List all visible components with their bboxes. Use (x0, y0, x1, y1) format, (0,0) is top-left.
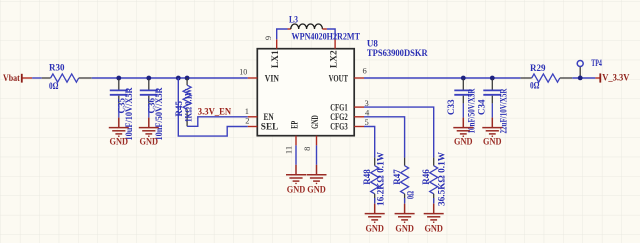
capacitor C36 (140, 79, 164, 141)
svg-text:3: 3 (365, 98, 369, 108)
pin 4 CFG2 (354, 116, 364, 118)
inductor L3 WPN4020H2R2MT (288, 14, 361, 42)
svg-text:C33: C33 (446, 99, 456, 115)
svg-text:VIN: VIN (265, 73, 280, 83)
wire Vbat to R30 (32, 77, 42, 79)
resistor R47 0R (392, 158, 415, 204)
pin 2 SEL (248, 126, 257, 128)
svg-text:CFG2: CFG2 (330, 112, 348, 122)
capacitor C34 (477, 79, 509, 134)
svg-text:CFG1: CFG1 (330, 102, 348, 112)
ground under C33 (453, 118, 473, 147)
svg-text:TPS63900DSKR: TPS63900DSKR (367, 48, 428, 58)
ground under R46 (424, 204, 444, 234)
port Vbat (3, 74, 32, 84)
svg-text:22uF/10V/X5R: 22uF/10V/X5R (499, 88, 509, 133)
svg-text:10nF/50V/X5R: 10nF/50V/X5R (467, 88, 477, 133)
ground under R47 (395, 204, 415, 234)
pin 5 CFG3 (354, 126, 364, 128)
svg-text:3.3V_EN: 3.3V_EN (198, 107, 232, 117)
svg-text:0Ω: 0Ω (405, 191, 415, 199)
svg-text:LX1: LX1 (270, 50, 280, 68)
wire VOUT rail (364, 77, 521, 79)
wire R29 to port (572, 77, 595, 79)
pin 6 VOUT (354, 77, 364, 79)
svg-text:EP: EP (290, 121, 300, 129)
svg-text:R47: R47 (392, 169, 402, 185)
port V_3.3V (595, 73, 629, 83)
svg-text:LX2: LX2 (329, 50, 339, 68)
wire CFG3 to R48 (364, 127, 375, 158)
svg-text:GND: GND (365, 224, 384, 234)
wire GND pin to ground (316, 145, 318, 164)
svg-text:V_3.3V: V_3.3V (602, 73, 629, 83)
resistor R48 16.2K (362, 152, 386, 206)
node junction C36 (146, 76, 151, 81)
svg-text:Vbat: Vbat (3, 74, 20, 84)
svg-text:0Ω: 0Ω (49, 81, 59, 91)
svg-text:10: 10 (239, 67, 247, 77)
svg-text:R48: R48 (362, 169, 372, 185)
svg-text:C34: C34 (477, 99, 487, 115)
pin 8 GND (316, 136, 318, 146)
svg-text:R30: R30 (49, 63, 65, 73)
svg-text:EN: EN (264, 112, 275, 122)
svg-text:GND: GND (454, 136, 473, 146)
pin 11 EP (295, 136, 297, 146)
ground under C36 (139, 118, 159, 147)
svg-text:GND: GND (307, 185, 326, 195)
ground under R48 (365, 204, 385, 234)
svg-text:WPN4020H2R2MT: WPN4020H2R2MT (292, 32, 361, 42)
resistor R30 0R (42, 63, 92, 91)
wire R45 to EN pin1 (187, 117, 248, 127)
svg-text:U8: U8 (367, 38, 378, 48)
resistor R29 0R (521, 63, 573, 91)
svg-text:1: 1 (245, 106, 249, 116)
test point TP4 (577, 58, 602, 78)
node junction C35 (116, 76, 121, 81)
IC U8 TPS63900DSKR (239, 36, 428, 154)
svg-text:R46: R46 (421, 169, 431, 185)
svg-text:GND: GND (110, 136, 129, 146)
ground under GND pin (307, 165, 327, 195)
node junction R45 (185, 76, 190, 81)
pin 3 CFG1 (354, 106, 364, 108)
node junction C33 (461, 76, 466, 81)
svg-text:8: 8 (302, 147, 312, 151)
ground under C34 (482, 118, 502, 147)
svg-text:9: 9 (263, 36, 273, 40)
svg-text:R29: R29 (530, 63, 546, 73)
pin 7 LX2 (334, 39, 336, 48)
svg-text:1KΩ 0.1W: 1KΩ 0.1W (184, 89, 194, 122)
resistor R46 36.5K (421, 152, 447, 206)
wire CFG1 to R46 (364, 107, 434, 158)
svg-text:GND: GND (140, 136, 159, 146)
svg-text:10nF/50V/X5R: 10nF/50V/X5R (154, 87, 164, 140)
svg-text:SEL: SEL (261, 122, 279, 132)
svg-text:GND: GND (287, 185, 306, 195)
ground under C35 (109, 118, 129, 147)
svg-text:GND: GND (483, 136, 502, 146)
svg-text:11: 11 (283, 146, 293, 154)
svg-text:GND: GND (424, 224, 443, 234)
pin 1 EN (248, 116, 257, 118)
svg-text:GND: GND (310, 115, 320, 129)
svg-text:0Ω: 0Ω (530, 81, 540, 91)
svg-text:TP4: TP4 (591, 58, 602, 68)
node junction C34 (490, 76, 495, 81)
svg-text:5: 5 (365, 117, 369, 127)
svg-text:VOUT: VOUT (329, 73, 348, 83)
node junction TP4 (578, 76, 583, 81)
ground under EP (286, 165, 306, 195)
svg-text:36.5KΩ 0.1W: 36.5KΩ 0.1W (437, 152, 447, 206)
wire EP to ground (295, 145, 297, 164)
svg-text:CFG3: CFG3 (330, 122, 348, 132)
wire L3 to LX2 (327, 29, 335, 39)
wire SEL branch (178, 78, 248, 136)
wire CFG2 to R47 (364, 117, 405, 158)
svg-text:2: 2 (245, 116, 249, 126)
svg-text:R45: R45 (174, 101, 184, 117)
pin 10 VIN (248, 77, 257, 79)
wire R30 to VIN pin10 (92, 77, 248, 79)
svg-text:L3: L3 (289, 14, 298, 24)
svg-text:6: 6 (363, 66, 367, 76)
svg-text:10uF/10V/X5R: 10uF/10V/X5R (124, 87, 134, 140)
capacitor C33 (446, 79, 477, 134)
resistor R45 1K (174, 78, 194, 126)
svg-text:GND: GND (395, 224, 414, 234)
pin 9 LX1 (276, 39, 278, 48)
svg-text:16.2KΩ 0.1W: 16.2KΩ 0.1W (376, 152, 386, 206)
node junction SEL branch (176, 76, 181, 81)
wire pin9 to L3 (277, 29, 288, 39)
capacitor C35 (110, 79, 134, 141)
